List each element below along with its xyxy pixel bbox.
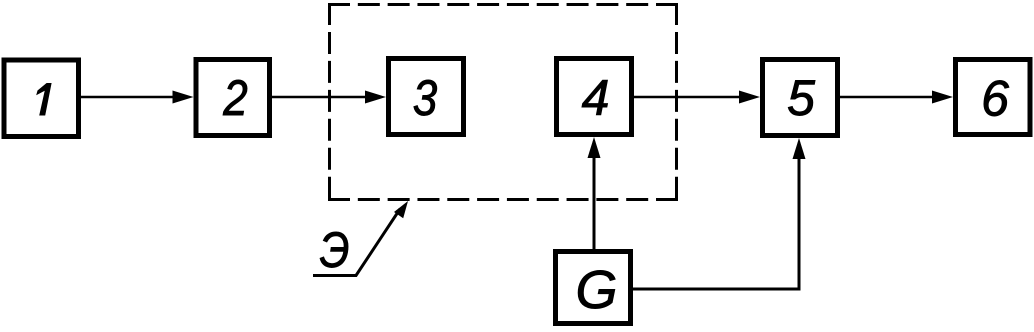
block 4 <box>557 59 632 135</box>
svg-text:5: 5 <box>787 70 815 126</box>
block 5 <box>763 60 838 136</box>
wire 2 to 3 <box>272 91 386 104</box>
block 3 <box>389 59 464 135</box>
svg-text:G: G <box>575 260 617 320</box>
block 1 <box>4 60 79 137</box>
svg-text:3: 3 <box>413 69 437 125</box>
wire G to 5 <box>633 138 806 289</box>
wire G to 4 <box>588 137 601 249</box>
svg-text:4: 4 <box>582 70 610 126</box>
generator block G <box>556 252 631 324</box>
wire 4 to 5 <box>634 91 760 104</box>
svg-text:2: 2 <box>222 69 247 125</box>
wire 5 to 6 <box>840 91 953 104</box>
dashed enclosure Э <box>328 3 678 200</box>
svg-text:Э: Э <box>320 222 350 278</box>
svg-text:6: 6 <box>981 71 1009 127</box>
block 2 <box>196 60 270 136</box>
label Э with leader arrow <box>313 201 408 278</box>
block 6 <box>956 60 1031 135</box>
wire 1 to 2 <box>81 91 194 104</box>
